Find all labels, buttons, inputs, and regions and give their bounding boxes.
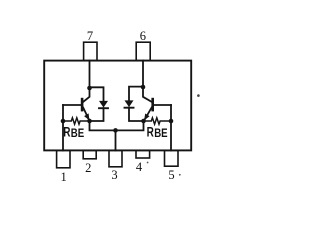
wire D1 cathode to node E1 (90, 108, 104, 121)
diode D2 (125, 100, 134, 107)
node R1 left (base/pin1 junction) (61, 119, 66, 124)
pin 6 lead (136, 42, 150, 60)
wire pin 6 to node C2 (142, 61, 144, 87)
svg-text:5: 5 (168, 168, 174, 182)
node C2 (collector junction Q2) (141, 85, 146, 90)
svg-text:R: R (147, 124, 154, 139)
svg-text:R: R (63, 124, 70, 139)
pin 5 lead (165, 150, 179, 166)
resistor R1 (64, 118, 88, 124)
pin 1 lead (57, 150, 70, 167)
svg-text:7: 7 (87, 29, 93, 43)
scan speck right edge (197, 94, 200, 97)
wire base node down to pin 5 (170, 105, 172, 150)
svg-text:6: 6 (140, 29, 146, 43)
pin 2 lead (83, 150, 96, 158)
scan speck near pin 4 (147, 162, 149, 164)
label RBE left (63, 124, 84, 140)
pin 7 lead (84, 42, 97, 60)
wire node C1 to diode D1 anode (90, 87, 104, 101)
wire common to pin 3 (115, 130, 117, 150)
transistor Q1 (81, 88, 90, 120)
wire Q2 base (154, 104, 171, 106)
node C1 (collector junction Q1) (87, 86, 92, 91)
diode D1 (99, 101, 108, 108)
svg-text:4: 4 (136, 160, 143, 174)
node E1 (emitter junction Q1) (87, 119, 92, 124)
svg-text:BE: BE (154, 126, 167, 140)
pin 3 lead (109, 150, 122, 166)
package body outline (44, 61, 191, 151)
emitter rail to common (90, 121, 144, 130)
wire D2 cathode to node E2 (129, 108, 144, 121)
svg-text:2: 2 (85, 161, 91, 175)
pin 4 lead (136, 150, 150, 158)
node R2 right (base/pin5 junction) (169, 119, 174, 124)
wire base node down to pin 1 (62, 105, 64, 150)
resistor R2 (145, 118, 172, 124)
scan speck near pin 5 (179, 174, 181, 176)
svg-text:3: 3 (111, 168, 117, 182)
wire node C2 to diode D2 anode (129, 87, 143, 101)
wire pin 7 to node C1 (89, 61, 91, 88)
node E2 (emitter junction Q2) (141, 119, 146, 124)
node common (pin 3 junction) (113, 128, 118, 133)
svg-text:BE: BE (71, 126, 84, 140)
transistor Q2 (143, 87, 154, 120)
label RBE right (147, 124, 168, 140)
svg-text:1: 1 (60, 170, 66, 184)
wire Q1 base (63, 104, 81, 106)
